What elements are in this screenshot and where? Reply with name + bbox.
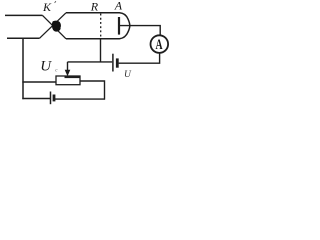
cathode K blob [52,21,60,31]
filament battery long plate [50,92,52,105]
label A (ammeter) [155,36,163,53]
svg-text:A: A [114,0,123,13]
svg-text:K: K [42,0,52,14]
wire right-bottom vertical up to rheostat right terminal [80,81,105,100]
svg-text:U: U [124,70,132,80]
ammeter circle [151,35,169,53]
svg-text:c: c [55,68,58,73]
wire slider-grid bus to battery U [68,61,113,63]
rheostat slider arrow [65,62,71,76]
wire ammeter down to battery U [119,53,160,63]
wire rheostat left terminal [22,81,56,83]
wire lower filament lead [7,37,40,39]
grid (dashed electrode) [100,14,102,40]
wire filament diagonal lower-to-blob / envelope top taper [40,13,66,38]
tube envelope [66,13,130,39]
wire anode to ammeter corner [120,26,160,36]
rheostat thick contact top edge [65,76,81,79]
wire filament diagonal upper-to-blob / envelope bottom taper [43,15,67,38]
svg-text:R: R [90,0,99,14]
svg-text:A: A [155,36,163,53]
wire bottom right from filament battery [54,98,105,100]
battery U long plate [112,54,114,72]
anode plate [118,17,120,35]
wire upper filament lead [5,14,43,16]
label K prime tick [55,1,56,3]
filament battery thick plate [53,95,56,102]
battery U thick plate [116,58,119,67]
svg-text:U: U [40,59,52,75]
wire left vertical [22,38,24,100]
rheostat body [56,76,80,85]
grid lead wire [100,39,102,62]
wire bottom left to filament battery [22,98,50,100]
